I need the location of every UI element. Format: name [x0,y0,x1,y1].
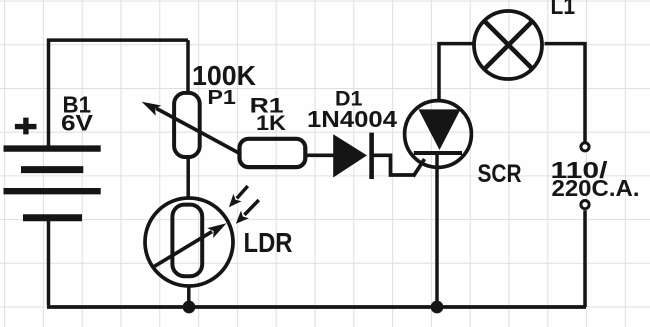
battery B1 [4,149,101,218]
terminal 110/220 C.A. top [581,143,589,151]
potentiometer wiper arrow to R1 [142,102,240,154]
wire: bottom rail [47,305,586,309]
wire: SCR cathode down to bottom rail [435,154,439,307]
wire: potentiometer bottom to LDR top [186,158,190,198]
diode D1 [333,133,371,179]
terminal 110/220 C.A. bottom [581,201,589,209]
resistor R1 [240,139,306,167]
junction at SCR cathode on rail [431,301,444,314]
battery plus sign [15,118,37,135]
svg-text:L1: L1 [551,0,576,20]
svg-text:6V: 6V [61,110,93,135]
SCR [405,101,472,177]
wire: battery positive up and across to potentiometer top [49,40,189,146]
LDR [145,198,233,286]
wire: diode D1 cathode jog to SCR gate [373,155,414,175]
junction at LDR bottom on rail [183,301,196,314]
svg-text:P1: P1 [207,86,236,109]
wire: battery negative down to bottom rail [47,220,51,305]
wire: top node down to potentiometer P1 top [186,40,190,92]
svg-text:LDR: LDR [244,227,293,258]
wire: lamp L1 right to AC terminal top [545,44,586,142]
wire: AC terminal bottom to bottom rail [583,210,587,307]
svg-text:1K: 1K [256,111,287,135]
LDR light arrow lower [236,200,259,224]
LDR variable arrow [152,223,227,267]
svg-text:1N4004: 1N4004 [307,106,397,132]
svg-text:SCR: SCR [478,160,522,188]
wire: R1 right to diode D1 anode [305,153,334,157]
LDR light arrow upper [229,186,248,207]
lamp L1 [474,11,542,79]
wire: SCR anode up to lamp node [439,44,473,100]
potentiometer P1 [174,93,200,157]
wire: LDR bottom to bottom rail [187,286,191,307]
svg-text:220C.A.: 220C.A. [552,175,640,201]
